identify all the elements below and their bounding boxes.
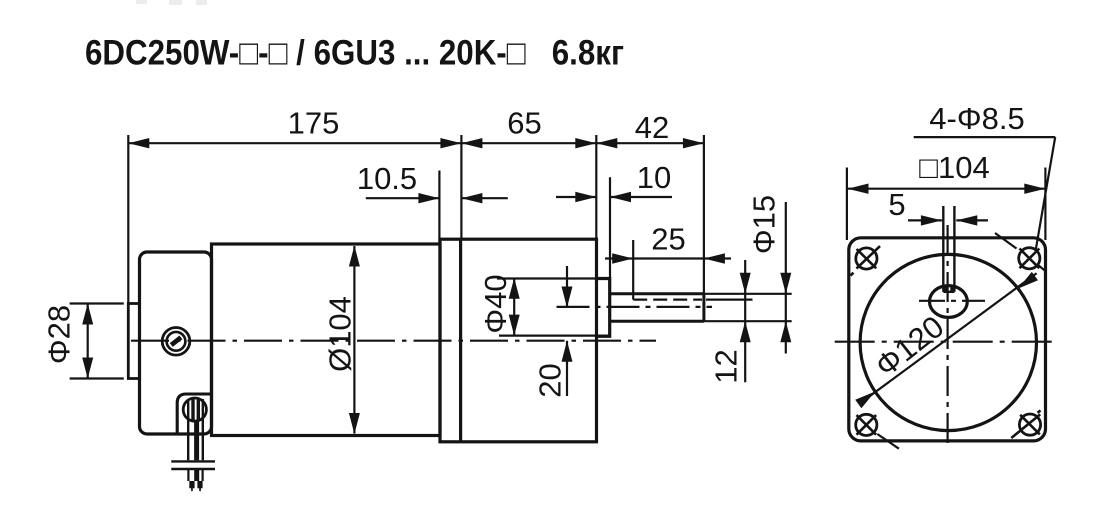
keyway flat extension [706, 299, 753, 301]
extension line left (175) [127, 135, 129, 304]
motor body [212, 244, 441, 436]
shaft centerline [557, 306, 713, 308]
cable gland bracket [177, 394, 211, 433]
main vertical centerline [946, 225, 948, 444]
svg-text:5: 5 [888, 187, 905, 222]
main horizontal centerline [835, 341, 1057, 343]
terminal screw [162, 328, 190, 356]
motor centerline [131, 340, 656, 342]
svg-text:65: 65 [507, 106, 541, 141]
output shaft top [610, 292, 704, 295]
gearbox circle Φ120 [860, 254, 1036, 430]
dimension square 104 [847, 150, 1046, 240]
output shaft bottom [610, 320, 704, 323]
svg-text:25: 25 [651, 222, 685, 257]
rear shaft boss Φ28 [128, 304, 139, 379]
wire terminal pins [189, 481, 202, 491]
svg-text:10.5: 10.5 [357, 161, 417, 196]
extension line shaft end [703, 135, 705, 322]
label 4-Φ8.5 with leader [914, 101, 1055, 250]
svg-text:12: 12 [709, 349, 744, 383]
extension line keyway start [632, 240, 634, 300]
shaft top extension [704, 293, 792, 295]
dimension 65 [461, 106, 596, 149]
svg-text:□104: □104 [919, 150, 989, 185]
dimension Φ40 [478, 274, 520, 335]
shaft bottom extension [704, 320, 792, 322]
extension line gearbox right [595, 135, 597, 239]
wires lower [188, 470, 202, 481]
dimension 42 [596, 110, 704, 148]
dimension 25 [605, 222, 731, 264]
extension line hub right [609, 177, 611, 278]
svg-text:Φ15: Φ15 [747, 195, 782, 254]
output shaft end [702, 294, 705, 321]
dimension Ø104 [323, 246, 360, 435]
svg-text:Φ28: Φ28 [42, 305, 77, 364]
mounting plate square [849, 238, 1046, 441]
bolt hole top-right [995, 233, 1046, 272]
hub top extension line [497, 277, 610, 279]
wire clamp plate [171, 461, 215, 469]
svg-text:4-Φ8.5: 4-Φ8.5 [929, 101, 1024, 136]
svg-text:42: 42 [635, 110, 669, 145]
svg-text:175: 175 [288, 106, 340, 141]
svg-text:20: 20 [533, 363, 568, 397]
hub bottom extension line [499, 335, 610, 337]
faint clipped text remnants at top [136, 0, 207, 5]
bolt hole bottom-left [856, 414, 899, 448]
bolt hole bottom-right [1011, 410, 1040, 438]
dimension 10 [556, 160, 672, 202]
dimension 10.5 [357, 161, 508, 203]
svg-text:10: 10 [637, 160, 671, 195]
svg-text:6DC250W-□-□ / 6GU3 ... 20K-□: 6DC250W-□-□ / 6GU3 ... 20K-□ 6.8кг [85, 34, 624, 73]
gearbox with flange [440, 239, 597, 442]
flange inner line [459, 239, 462, 442]
svg-text:Ø104: Ø104 [323, 296, 358, 372]
shaft horizontal centerline [919, 300, 985, 302]
bolt hole top-left [851, 246, 881, 275]
dimension 175 [128, 106, 461, 149]
cable gland circle [183, 398, 206, 421]
svg-text:Φ40: Φ40 [478, 274, 513, 333]
keyway slot [943, 206, 954, 292]
extension line motor body right [438, 171, 440, 245]
motor rear cap [140, 252, 212, 434]
dimension 12 [709, 260, 751, 384]
wires upper [188, 398, 203, 461]
dimension Φ15 [747, 195, 792, 354]
output hub boss [597, 279, 610, 337]
dimension Φ120 diagonal [855, 272, 1038, 408]
shaft keyway flat hidden line [633, 299, 702, 301]
dimension Φ28 [42, 304, 124, 379]
output shaft circle front [930, 286, 968, 318]
dimension 20 [533, 266, 573, 398]
extension line gearbox left [460, 135, 462, 239]
dimension 5 keyway [888, 187, 988, 226]
